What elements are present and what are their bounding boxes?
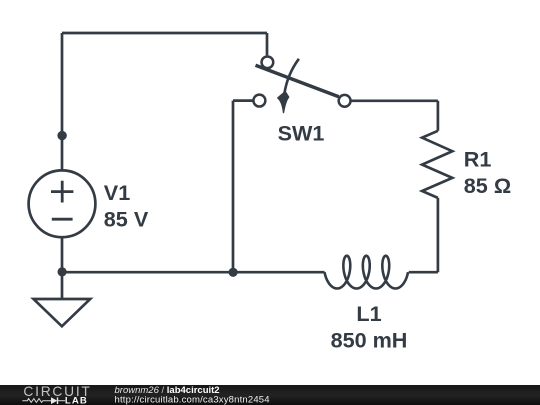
wire: inductor right lead to bottom-right corner [409,271,438,274]
wire: SW1 common terminal to right corner [351,99,438,102]
svg-text:85 Ω: 85 Ω [464,173,511,198]
resistor R1 [422,131,452,198]
wire: left vertical from V1 top terminal up to top-left corner [61,33,64,136]
wire: switch top lead down to SW1 throw terminal [266,33,269,55]
inductor L1 [325,256,409,289]
node: V1 top terminal dot [57,131,66,140]
svg-text:SW1: SW1 [278,121,325,146]
svg-text:V1: V1 [104,180,130,205]
wire: resistor bottom lead down to bottom-right corner [437,198,440,272]
wire: vertical from corner down to bottom rail junction [232,101,235,273]
svg-text:R1: R1 [464,146,492,171]
logo diode [51,397,57,404]
wire: bottom rail from V1 bottom junction to inductor [62,271,325,274]
wire: top horizontal [62,32,267,35]
ground [34,299,91,326]
wire: resistor top lead [437,101,440,131]
svg-text:LAB: LAB [65,396,88,405]
switch SW1 [253,56,350,112]
voltage source V1 [29,136,96,272]
svg-text:L1: L1 [356,301,381,326]
node: junction dot switch branch / bottom rail [229,268,238,277]
wire: ground lead below V1 [61,272,64,299]
wire: SW1 lower throw terminal to left corner [233,99,253,102]
footer bar [0,385,540,405]
svg-text:http://circuitlab.com/ca3xy8nt: http://circuitlab.com/ca3xy8ntn2454 [115,394,270,405]
logo resistor squiggle [22,399,51,403]
svg-text:85 V: 85 V [104,206,149,231]
node: junction dot V1 bottom / bottom rail [58,267,67,276]
svg-text:850 mH: 850 mH [331,328,408,353]
